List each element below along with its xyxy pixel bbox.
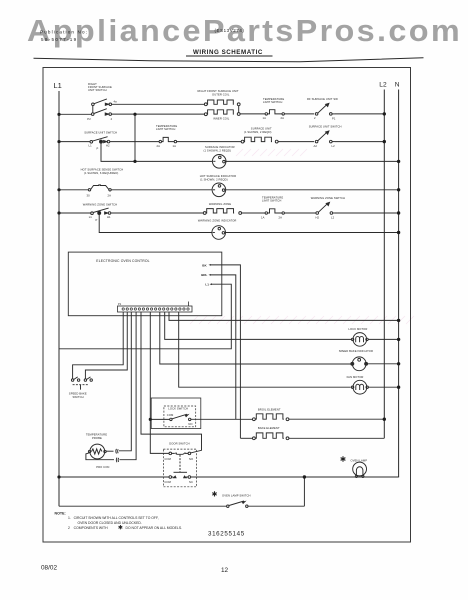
wire probe right to connector — [106, 450, 113, 452]
switch RF surface unit sw row2 — [315, 113, 318, 116]
wire row3 coil to surface unit switch right — [278, 141, 314, 143]
node lamp switch riser junction — [303, 475, 306, 478]
svg-text:1. CIRCUIT SHOWN WITH ALL CO: 1. CIRCUIT SHOWN WITH ALL CONTROLS SET T… — [68, 516, 159, 520]
wire row7 P-drop from warning zone switch — [99, 213, 212, 233]
svg-text:(ES13V274): (ES13V274) — [215, 28, 245, 33]
svg-text:1A: 1A — [263, 116, 267, 120]
indicator hot surface indicator — [212, 183, 226, 197]
svg-text:FAN MOTOR: FAN MOTOR — [347, 375, 364, 379]
svg-text:(1 SHOWN, 6 REQUIRED): (1 SHOWN, 6 REQUIRED) — [84, 171, 118, 175]
coil outer coil — [204, 103, 207, 106]
wire row2 temp limit switch to RF switch — [285, 113, 315, 115]
switch door switch bottom COM-NC arm — [169, 476, 172, 479]
switch surface unit switch row3 right — [315, 140, 318, 143]
svg-text:SPEED BAKE: SPEED BAKE — [69, 391, 87, 395]
switch speed bake switch pole 2 — [84, 379, 86, 381]
pink watermark hatch band A — [236, 149, 307, 156]
node riser pin12 at N bus — [397, 319, 400, 322]
wire row6 coil to temp limit switch — [242, 212, 266, 214]
svg-text:LOCK MOTOR: LOCK MOTOR — [348, 327, 367, 331]
svg-text:NO: NO — [188, 422, 192, 426]
wire vertical row2 to row4 — [134, 114, 136, 161]
switch warning zone switch left — [91, 212, 94, 215]
svg-text:59-5077-19: 59-5077-19 — [41, 37, 78, 42]
indicator surface indicator — [212, 155, 226, 169]
switch temperature limit switch row2 — [265, 113, 267, 115]
door switch dashed box — [163, 449, 196, 487]
svg-text:A2: A2 — [314, 144, 318, 148]
svg-text:COM: COM — [164, 480, 171, 484]
EOC electronic oven control box — [68, 252, 222, 316]
svg-text:LOCK SWITCH: LOCK SWITCH — [168, 406, 188, 410]
svg-text:08/02: 08/02 — [41, 565, 57, 572]
svg-text:WARNING ZONE SWITCH: WARNING ZONE SWITCH — [311, 196, 345, 200]
svg-text:HOT SURFACE INDICATOR: HOT SURFACE INDICATOR — [200, 174, 236, 178]
wire row4 surface indicator to N bus — [225, 160, 398, 162]
wire row4 to surface indicator — [135, 160, 213, 162]
svg-text:2A: 2A — [157, 144, 161, 148]
svg-text:L1: L1 — [89, 144, 93, 148]
wire row3 temp limit switch to surface unit coil — [177, 141, 242, 143]
wire riser pin1 to speed bake switch pole 1 — [73, 312, 124, 379]
svg-text:UNIT SWITCH: UNIT SWITCH — [88, 88, 107, 92]
svg-text:L1: L1 — [89, 215, 93, 219]
svg-text:WARNING ZONE SWITCH: WARNING ZONE SWITCH — [83, 202, 117, 206]
svg-text:INNER COIL: INNER COIL — [213, 116, 230, 120]
svg-text:1A: 1A — [173, 144, 177, 148]
motor lock motor — [353, 333, 367, 347]
svg-text:(1 SHOWN, 2 REQD): (1 SHOWN, 2 REQD) — [244, 130, 272, 134]
switch lock switch — [151, 418, 169, 420]
svg-text:2A: 2A — [108, 194, 112, 198]
wire row2 inner coil to temp limit switch — [240, 113, 265, 115]
wire BRL to broil row riser — [211, 275, 236, 419]
wire row3 to L2 bus — [335, 141, 384, 143]
svg-text:N: N — [395, 81, 400, 88]
svg-text:(1 SHOWN, 2 REQD): (1 SHOWN, 2 REQD) — [204, 149, 232, 153]
node row6 at L1 bus — [57, 211, 60, 214]
wire row3 switch to temp limit switch — [110, 141, 159, 143]
svg-text:OUTER COIL: OUTER COIL — [212, 92, 230, 96]
svg-text:BAKE ELEMENT: BAKE ELEMENT — [258, 426, 280, 430]
svg-text:12: 12 — [221, 567, 229, 574]
node row5 at L1 bus — [57, 188, 60, 191]
junction dots upper section — [57, 112, 400, 234]
svg-text:OVEN DOOR CLOSED AND UNLOCKED.: OVEN DOOR CLOSED AND UNLOCKED. — [78, 521, 142, 525]
wire row2 RF switch to L2 bus — [335, 113, 384, 115]
node row3 at L1 bus — [57, 140, 60, 143]
wire L2 bus vertical — [383, 90, 385, 439]
svg-text:WIRING SCHEMATIC: WIRING SCHEMATIC — [193, 49, 263, 56]
wire riser pin3 to temperature probe top — [119, 312, 131, 451]
svg-text:P1: P1 — [332, 117, 336, 121]
svg-text:P: P — [97, 147, 99, 151]
wire L1 output to L1 bus — [59, 284, 231, 349]
node speed bake indicator at N bus — [397, 362, 400, 365]
svg-text:PROBE: PROBE — [92, 436, 102, 440]
switch hot surface sense switch — [88, 189, 90, 191]
coil inner coil — [204, 113, 207, 116]
wire row7 warning zone indicator to N bus — [225, 232, 399, 234]
mechanical link speed bake switch — [73, 384, 89, 386]
svg-text:WARNING ZONE INDICATOR: WARNING ZONE INDICATOR — [198, 219, 237, 223]
switch temperature limit switch row3 — [159, 140, 161, 142]
element broil — [253, 418, 256, 421]
wire fan motor to N bus — [368, 386, 398, 388]
node lock motor at N bus — [397, 338, 400, 341]
svg-text:PRO CON: PRO CON — [96, 465, 109, 469]
switch RF surface unit switch left (bottom arm) — [91, 113, 94, 116]
switch door switch top COM-NO — [169, 452, 172, 455]
svg-text:COM: COM — [164, 457, 171, 461]
arrow BK — [209, 264, 212, 266]
connector strip P1 — [118, 306, 193, 312]
switch temperature limit switch row6 — [265, 212, 267, 214]
connector probe bottom (( — [116, 458, 118, 463]
mechanical link door switch — [179, 455, 181, 473]
wire lock motor to N bus — [368, 338, 398, 340]
node row5 at N bus — [397, 188, 400, 191]
svg-text:P1: P1 — [118, 302, 122, 306]
header horizontal rule — [34, 58, 424, 62]
node lock switch feed — [149, 418, 152, 421]
switch RF surface unit switch left (top arm) — [92, 103, 95, 106]
svg-text:P2: P2 — [87, 117, 91, 121]
svg-text:L1: L1 — [205, 282, 209, 286]
svg-text:L2: L2 — [332, 144, 336, 148]
label oven lamp switch asterisk — [212, 491, 216, 496]
svg-text:4a: 4a — [114, 99, 118, 103]
svg-text:Publication No:: Publication No: — [40, 29, 88, 34]
lock switch dashed box — [164, 406, 196, 427]
motor fan motor — [353, 380, 367, 394]
wire riser pin4 to temperature probe bottom — [120, 312, 137, 460]
wire riser pin2 to speed bake switch pole 2 — [85, 312, 127, 379]
node row2 at L1 bus — [57, 113, 60, 116]
svg-text:NC: NC — [189, 480, 193, 484]
svg-text:SURFACE UNIT: SURFACE UNIT — [251, 127, 272, 131]
svg-text:SURFACE INDICATOR: SURFACE INDICATOR — [205, 145, 235, 149]
element bake — [253, 437, 256, 440]
wire riser pin11 to lock motor — [165, 312, 352, 339]
note text block — [55, 512, 183, 531]
wire L1 bus vertical — [58, 91, 60, 506]
wire probe left loop to bottom connector — [86, 453, 114, 460]
svg-text:(1 SHOWN, 2 REQD): (1 SHOWN, 2 REQD) — [200, 178, 228, 182]
wire row6 to N bus — [335, 212, 399, 214]
svg-text:316255145: 316255145 — [208, 531, 245, 538]
wire bake element to L2 bus end — [289, 437, 384, 439]
svg-text:COM: COM — [167, 413, 174, 417]
svg-text:DOOR SWITCH: DOOR SWITCH — [169, 441, 190, 445]
wire row6 switch to warning zone coil — [111, 212, 204, 214]
title underline — [186, 55, 273, 57]
svg-text:LIMIT SWITCH: LIMIT SWITCH — [262, 199, 281, 203]
svg-text:2A: 2A — [281, 116, 285, 120]
wire BK to bake element riser — [211, 265, 241, 438]
node fan motor at N bus — [397, 386, 400, 389]
switch surface unit switch row3 left — [90, 141, 93, 144]
wire speed bake indicator to N bus — [368, 363, 399, 365]
svg-text:LIMIT SWITCH: LIMIT SWITCH — [263, 100, 282, 104]
arrow L1 — [210, 283, 213, 285]
svg-text:BRL: BRL — [201, 273, 207, 277]
node row2 drop junction — [133, 113, 136, 116]
wire riser pin7 to lock and door switch COM — [150, 312, 169, 453]
svg-text:P: P — [96, 218, 98, 222]
connector probe top (( — [116, 449, 118, 454]
svg-text:RIGHT FRONT SURFACE UNIT: RIGHT FRONT SURFACE UNIT — [198, 89, 239, 93]
wire row4 P-drop from row3 switch — [101, 142, 135, 162]
wire riser pin12 to N bus — [169, 312, 399, 320]
wire row3 L1 bus to surface unit switch — [59, 141, 90, 143]
svg-text:WARNING ZONE: WARNING ZONE — [209, 202, 231, 206]
wire riser pin5 to door switch NO — [141, 312, 202, 453]
wire vertical link coil right ends — [238, 106, 240, 113]
node row4 drop junction — [133, 160, 136, 163]
node row3 at L2 bus — [383, 140, 386, 143]
wire row1 switch to outer coil — [112, 103, 205, 105]
lock switch outer box — [151, 398, 201, 429]
wire BK riser to bake element — [240, 437, 252, 439]
wire lamp row L1 bus to N bus — [59, 476, 399, 478]
node row7 at N bus — [397, 231, 400, 234]
wire row5 L1 bus to hot surface sense switch — [59, 189, 88, 191]
wire riser pin15 to fan motor — [179, 312, 351, 387]
svg-text:L2: L2 — [379, 81, 387, 88]
indicator speed bake indicator — [352, 357, 366, 371]
wire row2 L1 bus to switch — [59, 113, 91, 115]
node broil at L2 bus — [383, 418, 386, 421]
switch oven lamp switch — [59, 505, 227, 507]
svg-text:30: 30 — [87, 194, 91, 198]
wire broil element to L2 bus — [289, 418, 384, 420]
svg-text:SWITCH: SWITCH — [73, 395, 84, 399]
svg-text:H1: H1 — [107, 215, 111, 219]
switch warning zone switch right — [316, 212, 319, 215]
svg-text:L1: L1 — [54, 81, 62, 90]
svg-text:RF SURFACE UNIT SW: RF SURFACE UNIT SW — [307, 97, 338, 101]
label oven lamp asterisk — [341, 456, 346, 462]
svg-text:OVEN LAMP SWITCH: OVEN LAMP SWITCH — [222, 494, 251, 498]
wire lock switch NO to broil element — [191, 418, 253, 420]
pink watermark hatch band B — [190, 316, 414, 324]
svg-text:AppliancePartsPros.com: AppliancePartsPros.com — [27, 14, 462, 48]
svg-text:L2: L2 — [331, 215, 335, 219]
node lamp row at L1 bus — [57, 475, 60, 478]
node row6 at N bus — [397, 211, 400, 214]
svg-text:DO NOT APPEAR ON ALL MODELS.: DO NOT APPEAR ON ALL MODELS. — [126, 526, 183, 530]
connector strip pins — [122, 308, 189, 310]
coil surface unit — [241, 140, 244, 143]
svg-text:SURFACE UNIT SWITCH: SURFACE UNIT SWITCH — [84, 131, 117, 135]
indicator warning zone indicator — [212, 226, 226, 240]
svg-text:1A: 1A — [261, 215, 265, 219]
svg-text:H2: H2 — [106, 144, 110, 148]
temperature probe — [90, 444, 105, 459]
node row2 at L2 bus — [383, 112, 386, 115]
wire row5 sense switch to hot surface indicator — [111, 189, 212, 191]
wire vertical link switch left contacts — [92, 106, 94, 113]
wire riser pin10 to speed bake indicator — [160, 312, 352, 364]
svg-text:H2: H2 — [316, 215, 320, 219]
svg-text:LIMIT SWITCH: LIMIT SWITCH — [156, 127, 175, 131]
wire row5 hot surface indicator to N bus — [225, 189, 399, 191]
svg-text:2A: 2A — [279, 215, 283, 219]
svg-text:ELECTRONIC OVEN CONTROL: ELECTRONIC OVEN CONTROL — [96, 259, 149, 263]
wire row2 switch to inner coil — [112, 113, 205, 115]
schematic border frame — [43, 68, 411, 543]
svg-text:BROIL ELEMENT: BROIL ELEMENT — [258, 407, 281, 411]
lamp oven lamp — [353, 462, 367, 476]
svg-text:2 COMPONENTS WITH: 2 COMPONENTS WITH — [68, 526, 108, 530]
svg-text:SURFACE UNIT SWITCH: SURFACE UNIT SWITCH — [309, 125, 342, 129]
svg-text:NOTE:: NOTE: — [55, 512, 66, 516]
wire oven lamp switch riser — [248, 477, 304, 506]
switch speed bake switch pole 1 — [71, 379, 73, 381]
wire row6 L1 bus to warning zone switch — [59, 212, 91, 214]
node row4 at N bus — [397, 160, 400, 163]
svg-text:SPEED BAKE INDICATOR: SPEED BAKE INDICATOR — [339, 349, 373, 353]
arrow BRL — [209, 274, 212, 276]
svg-text:NO: NO — [189, 457, 193, 461]
wire N bus vertical — [398, 90, 400, 478]
coil warning zone — [203, 212, 206, 215]
